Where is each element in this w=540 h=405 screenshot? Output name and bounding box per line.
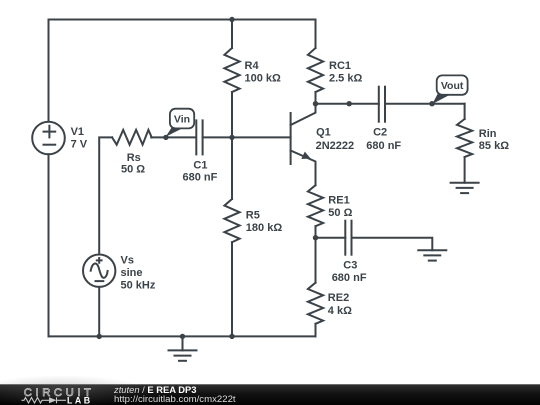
wire RE2 bottom lead: [315, 324, 317, 337]
footer title: [113, 384, 236, 405]
wire top rail: [49, 19, 316, 21]
flag Vin: [166, 109, 195, 137]
svg-text:50 Ω: 50 Ω: [121, 164, 145, 176]
wire V1 bottom lead: [48, 154, 50, 336]
label C3: [332, 259, 367, 284]
node collector: [313, 101, 318, 106]
svg-text:Rs: Rs: [127, 152, 141, 164]
svg-text:C1: C1: [193, 160, 207, 172]
capacitor C3: [345, 221, 351, 255]
label R4: [245, 60, 282, 85]
wire RC1 top lead: [315, 20, 317, 49]
label R5: [246, 209, 283, 234]
svg-text:LAB: LAB: [67, 396, 93, 405]
svg-text:R4: R4: [245, 60, 260, 72]
svg-text:RE1: RE1: [328, 194, 349, 206]
wire C3 to ground: [352, 238, 433, 251]
footer bar: [0, 375, 540, 405]
wire V1 top lead: [48, 20, 50, 122]
svg-text:85 kΩ: 85 kΩ: [479, 140, 509, 152]
svg-text:Rin: Rin: [479, 128, 497, 140]
label RE1: [328, 194, 352, 219]
ground C3: [418, 250, 446, 260]
wire RE2 top lead: [315, 238, 317, 283]
svg-text:RE2: RE2: [328, 292, 349, 304]
node base: [229, 135, 234, 140]
capacitor C1: [196, 120, 202, 154]
svg-text:Vs: Vs: [121, 254, 134, 266]
svg-text:680 nF: 680 nF: [183, 171, 218, 183]
resistor RE1: [308, 185, 323, 226]
resistor Rin: [457, 119, 472, 157]
label V1: [71, 126, 88, 151]
node ground bottom: [180, 334, 185, 339]
svg-text:2N2222: 2N2222: [316, 140, 355, 152]
ground bottom: [169, 336, 197, 360]
label Q1: [316, 127, 355, 153]
logo resistor-diode doodle: [22, 397, 67, 403]
svg-text:V1: V1: [71, 126, 84, 138]
label Vs: [121, 254, 156, 291]
svg-text:http://circuitlab.com/cmx222t: http://circuitlab.com/cmx222t: [114, 394, 236, 405]
svg-text:R5: R5: [246, 209, 260, 221]
svg-text:C3: C3: [343, 259, 357, 271]
node R5 bottom: [229, 334, 234, 339]
svg-text:7 V: 7 V: [71, 139, 88, 151]
svg-text:50 Ω: 50 Ω: [328, 207, 352, 219]
logo CIRCUIT: [24, 387, 95, 399]
resistor RC1: [308, 48, 323, 92]
wire Vs up to Rs: [99, 137, 112, 254]
node emitter RE1: [313, 235, 318, 240]
node R4 top: [229, 17, 234, 22]
svg-text:50 kHz: 50 kHz: [121, 280, 156, 292]
svg-text:Vin: Vin: [174, 113, 190, 125]
node C2 left: [347, 101, 352, 106]
voltage source V1: [32, 122, 65, 155]
svg-text:C2: C2: [373, 127, 387, 139]
resistor R5: [224, 199, 239, 242]
svg-text:680 nF: 680 nF: [366, 140, 401, 152]
wire RE1 bottom lead: [315, 226, 317, 238]
label Rs: [121, 152, 145, 176]
svg-text:100 kΩ: 100 kΩ: [245, 73, 282, 85]
wire bottom rail: [49, 335, 316, 337]
svg-text:sine: sine: [121, 267, 143, 279]
label C1: [183, 160, 218, 184]
svg-text:4 kΩ: 4 kΩ: [328, 305, 352, 317]
wire Rin top lead: [464, 104, 466, 119]
wire C1 to base node: [203, 136, 232, 138]
svg-text:RC1: RC1: [329, 60, 351, 72]
logo LAB: [67, 396, 93, 405]
wire base node to Q1 base: [232, 136, 291, 138]
resistor Rs: [112, 130, 152, 145]
flag Vout: [432, 75, 467, 104]
wire RE1 node to C3: [316, 237, 346, 239]
svg-text:Q1: Q1: [316, 127, 331, 139]
wire Rin bottom lead: [464, 157, 466, 183]
svg-text:2.5 kΩ: 2.5 kΩ: [329, 73, 362, 85]
svg-text:180 kΩ: 180 kΩ: [246, 222, 283, 234]
svg-text:Vout: Vout: [441, 80, 464, 92]
node Vin: [163, 135, 168, 140]
label RC1: [329, 60, 362, 85]
label C2: [366, 127, 401, 153]
wire Vs bottom lead: [98, 287, 100, 337]
node Vout: [429, 101, 434, 106]
transistor Q1: [291, 104, 316, 164]
node Vs bottom: [97, 334, 102, 339]
ground Rin: [451, 183, 479, 193]
label Rin: [479, 128, 509, 152]
wire C2 to Rin: [385, 103, 465, 105]
label RE2: [328, 292, 352, 317]
capacitor C2: [379, 87, 385, 122]
resistor RE2: [308, 283, 323, 324]
wire R5 top lead: [231, 137, 233, 199]
wire R4 bottom lead: [231, 92, 233, 137]
wire Q1 emitter lead: [315, 163, 317, 185]
wire R4 top lead: [231, 20, 233, 49]
wire collector line: [316, 103, 379, 105]
wire RC1 bottom lead: [315, 92, 317, 104]
wire Rs to Vin node: [151, 136, 196, 138]
resistor R4: [224, 48, 239, 92]
svg-text:680 nF: 680 nF: [332, 272, 367, 284]
source Vs sine: [83, 255, 115, 287]
wire R5 bottom lead: [231, 242, 233, 336]
